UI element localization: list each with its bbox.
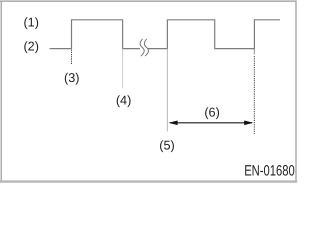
- frame top border: [0, 0, 297, 2]
- arrowhead left: [169, 121, 178, 126]
- break symbol squiggle left: [140, 39, 144, 56]
- wire drop line from falling edge to (4): [122, 49, 124, 89]
- dimension arrow line (6): [170, 122, 252, 124]
- wire drop line from rising edge to (5): [166, 49, 168, 132]
- arrowhead right: [244, 121, 253, 126]
- frame bottom border: [0, 180, 297, 182]
- wire signal waveform trace: [50, 20, 280, 49]
- node dotted marker at rising edge (6) right: [253, 49, 255, 55]
- node dotted marker at rising edge (3): [71, 50, 73, 65]
- frame left border: [0, 1, 2, 182]
- frame right border: [295, 1, 297, 182]
- svg-text:(2): (2): [23, 40, 39, 54]
- svg-text:(3): (3): [64, 71, 80, 85]
- svg-text:(6): (6): [204, 106, 220, 120]
- break symbol squiggle right: [144, 39, 148, 56]
- svg-text:(4): (4): [116, 94, 132, 108]
- svg-text:(1): (1): [23, 16, 39, 30]
- svg-text:EN-01680: EN-01680: [244, 162, 295, 179]
- svg-text:(5): (5): [159, 139, 175, 153]
